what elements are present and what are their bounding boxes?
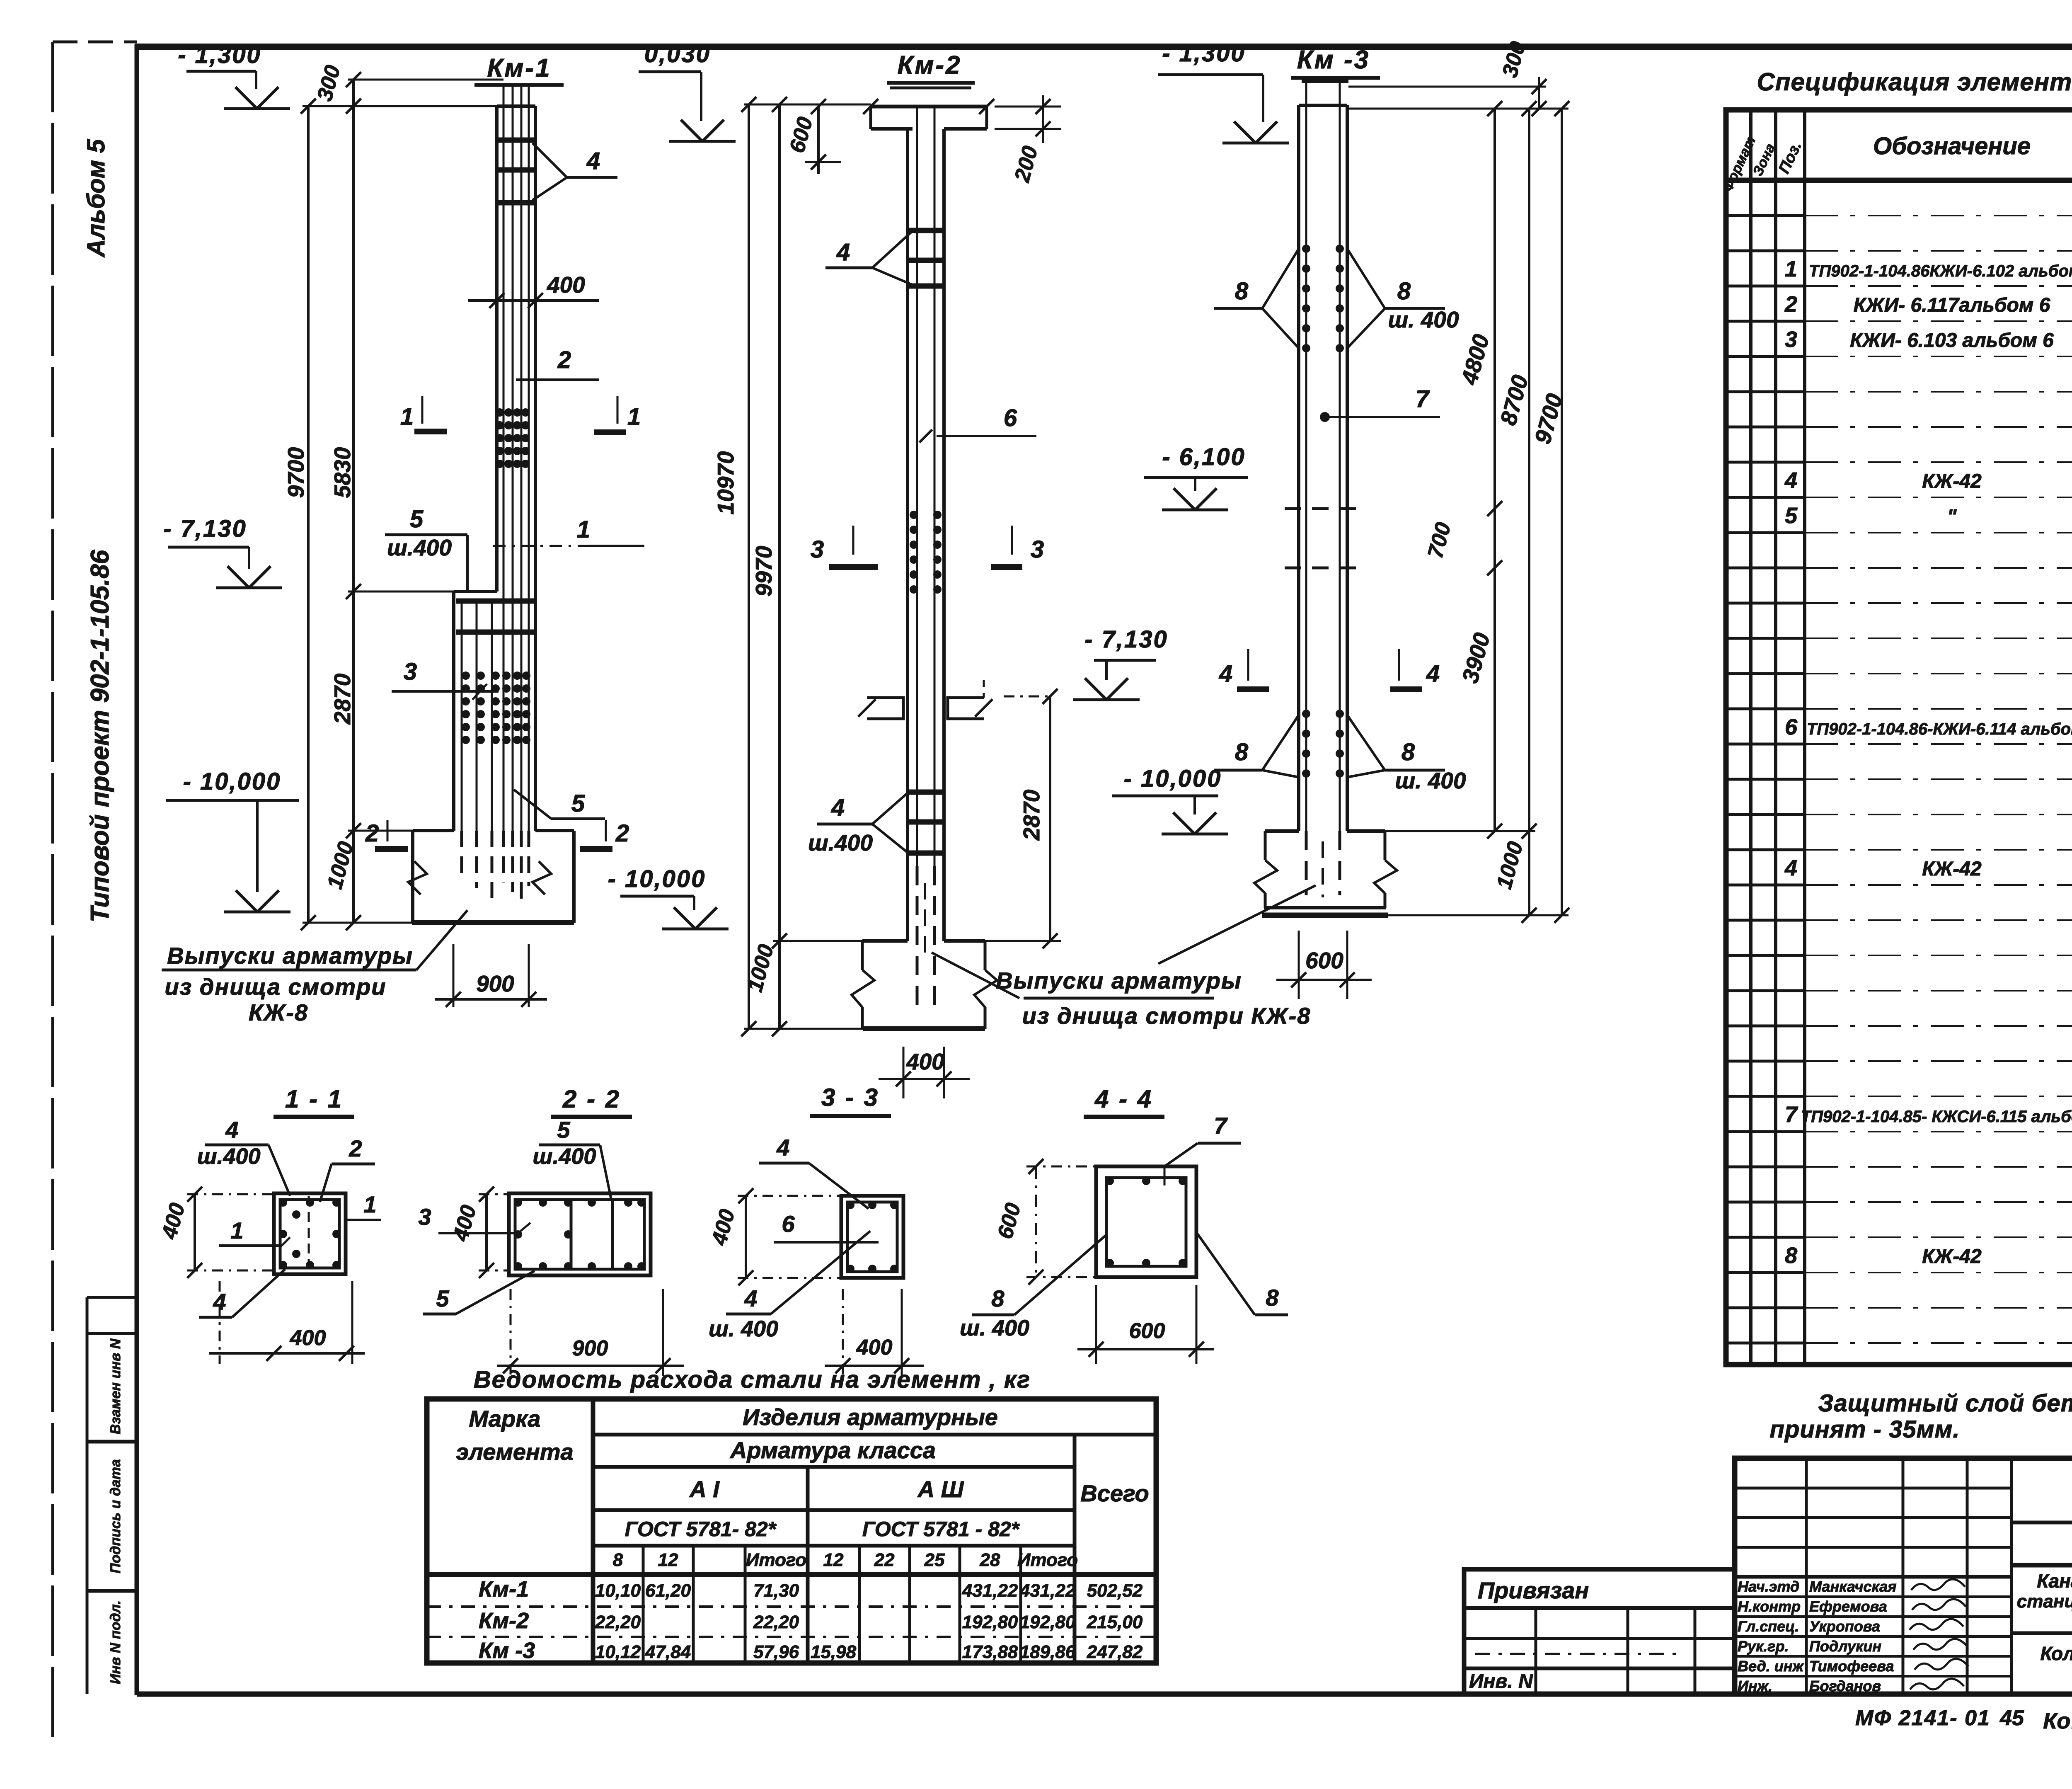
svg-text:2: 2 (1784, 292, 1797, 317)
svg-text:- 7,130: - 7,130 (1084, 626, 1168, 653)
beam stub left (Km-2) (858, 698, 903, 719)
foundation break marks Km-1 (408, 861, 551, 894)
svg-text:400: 400 (906, 1049, 944, 1074)
dimension 400 left (section 1-1) (157, 1187, 274, 1278)
svg-text:- 10,000: - 10,000 (183, 768, 281, 795)
column Km-3 shaft outline (1299, 105, 1347, 831)
leader 5 (Km-1 lower rebar) (514, 790, 605, 819)
svg-text:2: 2 (349, 1135, 362, 1161)
title block signature row Нач.этд (1738, 1578, 1965, 1595)
svg-text:2: 2 (615, 820, 629, 847)
svg-text:0,030: 0,030 (644, 41, 711, 68)
privyazan table grid (1464, 1608, 1735, 1694)
svg-text:КЖ-8: КЖ-8 (249, 999, 308, 1025)
svg-text:ТП902-1-104.86КЖИ-6.102 альбом: ТП902-1-104.86КЖИ-6.102 альбом 6 (1809, 262, 2072, 280)
leader 4 sh.400 (section 1-1) (197, 1117, 290, 1196)
svg-text:8: 8 (1235, 278, 1249, 305)
spec header Format (1720, 134, 1759, 194)
svg-text:431,22: 431,22 (962, 1581, 1018, 1601)
dimension 600 (Km-3 foundation) (1276, 931, 1372, 999)
svg-text:КЖ-42: КЖ-42 (1922, 470, 1982, 492)
svg-text:ш. 400: ш. 400 (1388, 307, 1459, 332)
svg-text:5: 5 (410, 506, 424, 533)
svg-text:ш.400: ш.400 (197, 1144, 260, 1169)
column Km-2 lower stirrups pos.4 (907, 792, 945, 853)
svg-text:8: 8 (1785, 1243, 1797, 1268)
dimension 400 (Km-1 shaft width) (468, 272, 599, 308)
svg-text:3: 3 (811, 536, 824, 563)
svg-text:1 - 1: 1 - 1 (285, 1085, 343, 1113)
svg-text:ГОСТ 5781- 82*: ГОСТ 5781- 82* (625, 1517, 777, 1541)
section 3-3 label (810, 1084, 891, 1116)
svg-text:Всего: Всего (1080, 1480, 1149, 1506)
svg-text:1: 1 (627, 403, 641, 430)
svg-text:ТП902-1-104.86-КЖИ-6.114 альбо: ТП902-1-104.86-КЖИ-6.114 альбом 6 (1807, 720, 2072, 738)
title block signature row Инж. (1738, 1677, 1964, 1694)
svg-text:Привязан: Привязан (1478, 1577, 1589, 1603)
level line 1 with leader (Km-1) (493, 516, 644, 546)
svg-text:12: 12 (823, 1550, 844, 1570)
leader 4 (Km-2 upper stirrups) (825, 232, 911, 284)
vedomost header GOST AIII (862, 1517, 1020, 1541)
section 4-4 outer square (1096, 1166, 1196, 1277)
svg-text:4 - 4: 4 - 4 (1094, 1085, 1153, 1113)
elevation mark -7.130 (left) (163, 515, 282, 588)
section mark 1-1 left (400, 396, 447, 431)
svg-text:22,20: 22,20 (595, 1612, 641, 1632)
column Km-1 longitudinal rebars (503, 87, 529, 831)
leader 3 (Km-1 base rebar) (392, 658, 499, 700)
column Km-2 shaft outline (908, 129, 944, 941)
vedomost header Vsego (1080, 1480, 1149, 1506)
level dash -6.100 on Km-3 (1285, 507, 1363, 510)
svg-text:3 - 3: 3 - 3 (821, 1084, 879, 1111)
leader 1 right (section 1-1) (346, 1191, 381, 1220)
dimension line 8700/1000 (Km-3) (1492, 101, 1537, 923)
dimension line 10970 (Km-2) (713, 97, 756, 1036)
svg-text:Спецификация элементов к мо: Спецификация элементов к монолитным коло… (1757, 68, 2072, 96)
svg-text:Копировал Иванова: Копировал Иванова (2043, 1709, 2072, 1733)
spec table row separators (1726, 216, 2072, 1343)
elevation mark -7.130 (Km-2/Km-3) (1073, 626, 1168, 700)
column Km-1 stirrup dots (widened base) (462, 671, 530, 744)
svg-text:10970: 10970 (713, 451, 738, 514)
spec header Zona (1750, 141, 1778, 178)
svg-text:КЖИ- 6.117альбом 6: КЖИ- 6.117альбом 6 (1854, 294, 2050, 316)
column Km-1 foundation (412, 831, 574, 923)
svg-text:4: 4 (586, 148, 600, 175)
svg-text:8: 8 (1266, 1285, 1279, 1311)
column Km-1 title (474, 54, 564, 85)
svg-text:173,88: 173,88 (962, 1642, 1018, 1662)
svg-text:Км-2: Км-2 (897, 51, 961, 80)
leader 1 inside (section 1-1) (219, 1217, 290, 1246)
caption vypuski armatury Km-1 (162, 910, 467, 1025)
svg-text:1: 1 (400, 403, 414, 430)
svg-text:2870: 2870 (1019, 789, 1044, 841)
svg-text:4: 4 (831, 794, 845, 821)
vedomost header AIII (917, 1476, 964, 1502)
dimension line 4800/700/3900 (Km-3) (1423, 101, 1502, 839)
foundation break marks Km-3 (1254, 860, 1397, 893)
leader 6 (Km-2 rebar) (920, 405, 1036, 442)
title block horizontal lines (right part) (2011, 1522, 2072, 1633)
leader 7 (Km-3 middle rebar) (1320, 385, 1440, 422)
level dash -7.130 on Km-3 (1285, 567, 1363, 570)
svg-text:Укропова: Укропова (1809, 1618, 1880, 1635)
svg-text:502,52: 502,52 (1087, 1581, 1143, 1601)
column Km-2 rebar outlets (dashed) (917, 866, 934, 1005)
svg-text:12: 12 (658, 1550, 678, 1570)
svg-text:Вед. инж: Вед. инж (1738, 1658, 1804, 1675)
leader 4 top (section 3-3) (759, 1134, 869, 1209)
svg-text:Альбом 5: Альбом 5 (82, 138, 110, 258)
svg-text:8: 8 (1235, 739, 1249, 766)
svg-text:Тимофеева: Тимофеева (1809, 1658, 1894, 1675)
svg-text:ш.400: ш.400 (808, 830, 873, 856)
svg-text:15,98: 15,98 (811, 1642, 857, 1662)
svg-text:6: 6 (782, 1211, 795, 1237)
leader 4 bottom (section 1-1) (199, 1269, 285, 1317)
extension lines Km-2 dims (744, 104, 871, 1029)
svg-text:25: 25 (924, 1550, 945, 1570)
leader 8 sh.400 right (Km-3 band1) (1347, 249, 1459, 348)
svg-text:Гл.спец.: Гл.спец. (1738, 1618, 1799, 1635)
svg-text:3: 3 (1031, 536, 1044, 563)
svg-text:192,80: 192,80 (1020, 1612, 1076, 1632)
title block frame (1735, 1458, 2072, 1694)
spec header Poz (1775, 139, 1805, 177)
svg-text:Инж.: Инж. (1738, 1677, 1772, 1694)
stamp label Inv N podl (108, 1600, 123, 1684)
svg-text:400: 400 (856, 1336, 893, 1360)
svg-text:ш.400: ш.400 (533, 1144, 596, 1169)
svg-text:КЖ-42: КЖ-42 (1922, 1246, 1982, 1268)
svg-text:1: 1 (230, 1217, 243, 1244)
svg-text:элемента: элемента (456, 1439, 573, 1465)
section 3-3 stirrup (846, 1201, 898, 1273)
column Km-1 shaft outline (497, 106, 535, 831)
dimension line 9700 (Km-1) (283, 99, 316, 930)
leader 4 sh.400 (Km-2 lower stirrups) (808, 794, 907, 856)
section mark 1-1 right (594, 396, 641, 432)
dimension 300 (Km-3 top) (1498, 39, 1547, 116)
svg-text:Км-1: Км-1 (479, 1577, 529, 1602)
svg-text:431,22: 431,22 (1019, 1581, 1076, 1601)
svg-text:Инв N подл.: Инв N подл. (108, 1600, 123, 1684)
svg-text:Выпуски арматуры: Выпуски арматуры (996, 967, 1242, 994)
svg-text:57,96: 57,96 (753, 1642, 799, 1662)
svg-text:6: 6 (1004, 405, 1017, 431)
section mark 3-3 left (811, 526, 878, 567)
leader 4 sh.400 bottom (section 3-3) (709, 1231, 870, 1341)
svg-text:4: 4 (776, 1134, 789, 1161)
column Km-3 title (1291, 46, 1380, 78)
leader 4 (upper stirrups Km-1) (533, 143, 617, 200)
svg-text:КЖ-42: КЖ-42 (1922, 858, 1982, 880)
dimension 600 bottom (section 4-4) (1077, 1285, 1214, 1364)
section mark 2-2 left (365, 820, 408, 849)
svg-text:4: 4 (1784, 856, 1797, 880)
dimension 900 bottom (section 2-2) (497, 1289, 684, 1376)
bottom caption 45 (1999, 1706, 2024, 1730)
column Km-3 longitudinal rebars (1306, 83, 1340, 831)
leader 2 (section 1-1) (320, 1135, 375, 1202)
column Km-3 foundation (1262, 831, 1388, 915)
elevation mark -10.000 (left) (166, 768, 299, 912)
svg-text:45: 45 (1999, 1706, 2024, 1730)
vedomost header AI (689, 1476, 720, 1502)
vedomost row Km-1 (479, 1577, 1143, 1602)
section 4-4 label (1084, 1085, 1164, 1117)
svg-text:из днища смотри КЖ-8: из днища смотри КЖ-8 (1022, 1003, 1311, 1029)
svg-text:8: 8 (613, 1550, 623, 1570)
vedomost header diameters (613, 1550, 1078, 1570)
column Km-2 upper stirrups pos.4 (907, 230, 945, 286)
spec row y=752: То же (1784, 292, 2072, 317)
svg-text:- 10,000: - 10,000 (1124, 765, 1222, 792)
column Km-3 top cap (1302, 78, 1348, 83)
svg-text:28: 28 (980, 1550, 1000, 1570)
section 4-4 stirrup (1106, 1177, 1187, 1267)
svg-text:Подпись и дата: Подпись и дата (108, 1459, 123, 1573)
title block signature row Гл.спец. (1738, 1618, 1963, 1635)
svg-text:Типовой проект 902-1-105.86: Типовой проект 902-1-105.86 (86, 550, 114, 922)
svg-text:215,00: 215,00 (1087, 1612, 1143, 1632)
leader 8 left (Km-3 band1) (1214, 249, 1299, 348)
svg-text:7: 7 (1785, 1102, 1798, 1127)
svg-text:1: 1 (363, 1191, 376, 1217)
dimension line 9700 (Km-3) (1530, 101, 1569, 923)
svg-text:5: 5 (436, 1285, 449, 1311)
svg-text:2: 2 (365, 820, 379, 847)
bottom caption Kopiroval Ivanova (2043, 1709, 2072, 1733)
vedomost table title (474, 1366, 1031, 1393)
svg-text:10,10: 10,10 (595, 1581, 641, 1601)
vedomost row Km-3 (479, 1638, 1143, 1663)
vedomost table frame (427, 1399, 1156, 1663)
sheet outer border (left, dashed) (53, 42, 137, 1739)
column Km-1 base stirrups pos.3 (456, 601, 535, 632)
svg-text:ГОСТ 5781 - 82*: ГОСТ 5781 - 82* (862, 1517, 1020, 1541)
svg-text:6: 6 (1785, 715, 1798, 739)
column Km-2 stirrup dots (910, 511, 942, 594)
svg-text:3: 3 (418, 1204, 431, 1230)
svg-text:Подлукин: Подлукин (1809, 1638, 1881, 1655)
svg-text:22,20: 22,20 (753, 1612, 799, 1632)
svg-text:192,80: 192,80 (962, 1612, 1018, 1632)
svg-text:900: 900 (572, 1336, 608, 1360)
spec table frame (1726, 110, 2072, 1365)
svg-text:Итого: Итого (746, 1550, 806, 1570)
column Km-1 upper stirrups pos.4 (496, 140, 536, 203)
column Km-3 stirrup dots band 1 (1302, 245, 1344, 352)
svg-text:Манкачская: Манкачская (1809, 1578, 1896, 1595)
svg-text:Нач.этд: Нач.этд (1738, 1578, 1799, 1595)
svg-text:3: 3 (1785, 327, 1797, 352)
svg-text:9970: 9970 (751, 545, 777, 596)
title block signature row Н.контр (1738, 1598, 1966, 1615)
column Km-2 foundation (862, 941, 985, 1029)
spec row y=837: " (1785, 327, 2072, 352)
column Km-2 longitudinal rebars (917, 107, 934, 866)
svg-text:5830: 5830 (329, 447, 355, 498)
vedomost header Armatura klassa (729, 1437, 936, 1463)
elevation mark -10.000 (left of Km-2) (608, 865, 729, 929)
leader 2 (rebar Km-1) (516, 347, 599, 380)
svg-text:": " (1947, 506, 1957, 528)
bottom caption MF2141-01 (1855, 1706, 1990, 1730)
svg-text:из днища смотри: из днища смотри (165, 974, 386, 1000)
spec row y=1262: ℓ = 880 (1785, 503, 2072, 528)
svg-text:принят - 35мм.: принят - 35мм. (1769, 1416, 1960, 1443)
svg-text:4: 4 (744, 1285, 757, 1311)
svg-text:ш. 400: ш. 400 (960, 1316, 1029, 1341)
section 3-3 outer square (841, 1196, 903, 1278)
dimension 200 (Km-2 flange thickness) (995, 95, 1061, 185)
spec table title (1757, 68, 2072, 96)
stamp label Vzamen inv N (108, 1338, 123, 1434)
svg-text:600: 600 (1129, 1319, 1165, 1343)
svg-text:А Ш: А Ш (917, 1476, 964, 1502)
elevation mark -6.100 (right of Km-2) (1144, 444, 1248, 510)
svg-text:КЖИ- 6.103 альбом 6: КЖИ- 6.103 альбом 6 (1850, 330, 2054, 351)
svg-text:Км-2: Км-2 (479, 1608, 529, 1633)
svg-text:8: 8 (991, 1285, 1005, 1311)
title block signature row Вед. инж (1738, 1658, 1968, 1675)
svg-text:9700: 9700 (283, 447, 309, 498)
column Km-1 rebar outlets (dashed) (462, 831, 529, 902)
svg-text:3: 3 (404, 658, 417, 685)
svg-text:МФ 2141- 01: МФ 2141- 01 (1855, 1706, 1990, 1730)
title block sheet name (2041, 1643, 2072, 1688)
dimension 600 (Km-2 flange) (785, 99, 871, 174)
leader 5 bottom (section 2-2) (423, 1271, 535, 1314)
leader 6 (section 3-3) (774, 1211, 879, 1242)
svg-text:1: 1 (577, 516, 590, 543)
svg-text:4: 4 (1784, 468, 1797, 493)
dimension 400 left (section 2-2) (448, 1187, 509, 1278)
svg-text:Рук.гр.: Рук.гр. (1738, 1638, 1789, 1655)
svg-text:4: 4 (225, 1117, 238, 1143)
beam stub right (Km-2) (948, 680, 992, 719)
dimension line 9970/1000 (Km-2) (743, 97, 787, 1036)
svg-text:247,82: 247,82 (1087, 1642, 1143, 1662)
column Km-2 title (887, 51, 975, 88)
leader 7 (section 4-4) (1164, 1113, 1241, 1185)
svg-text:ш.400: ш.400 (387, 535, 452, 560)
dimension 600 left (section 4-4) (993, 1159, 1096, 1285)
title block signature row Рук.гр. (1738, 1638, 1967, 1655)
section 1-1 outer square (274, 1193, 346, 1274)
column Km-3 rebar outlets (dashed) (1306, 831, 1340, 897)
spec row y=2707: Каркас плоский (1785, 1102, 2072, 1127)
section 2-2 label (551, 1085, 632, 1117)
svg-text:2870: 2870 (329, 673, 355, 725)
svg-text:4: 4 (1219, 660, 1232, 687)
section mark 4-4 left (Km-3) (1219, 649, 1269, 689)
spec header Oboznachenie (1873, 133, 2031, 160)
svg-text:22: 22 (874, 1550, 895, 1570)
svg-text:Марка: Марка (469, 1406, 541, 1432)
privyazan label (1478, 1577, 1589, 1603)
section 1-1 label (274, 1085, 354, 1117)
vedomost header GOST AI (625, 1517, 777, 1541)
svg-text:Богданов: Богданов (1809, 1677, 1881, 1694)
dimension 900 (Km-1 foundation) (435, 944, 547, 1007)
svg-text:4: 4 (1426, 660, 1440, 687)
extension lines Km-1 dims (303, 80, 503, 923)
svg-text:- 1,300: - 1,300 (178, 41, 261, 68)
leader 8 sh.400 bottom-left (section 4-4) (960, 1234, 1107, 1341)
svg-text:189,86: 189,86 (1020, 1642, 1076, 1662)
column Km-1 stirrup dots (shaft) (496, 408, 530, 468)
vedomost row Km-2 (479, 1608, 1143, 1633)
svg-text:- 7,130: - 7,130 (163, 515, 247, 542)
column Km-1 widened base outline (454, 591, 497, 831)
svg-text:5: 5 (1785, 503, 1798, 528)
leader 5 sh.400 (section 2-2) (533, 1117, 611, 1200)
section 2-2 stirrups (514, 1198, 646, 1270)
svg-text:400: 400 (547, 272, 585, 298)
svg-text:Инв. N: Инв. N (1469, 1670, 1533, 1692)
svg-text:7: 7 (1214, 1113, 1228, 1139)
svg-text:7: 7 (1416, 385, 1430, 412)
leader 8 left (Km-3 band2) (1214, 715, 1299, 777)
svg-text:4: 4 (836, 239, 850, 266)
svg-text:- 1,300: - 1,300 (1162, 40, 1246, 67)
svg-text:Н.контр: Н.контр (1738, 1598, 1801, 1615)
leader 5 sh.400 (Km-1 step stirrups) (385, 506, 467, 591)
svg-text:Обозначение: Обозначение (1873, 133, 2031, 160)
title block project name (2017, 1570, 2072, 1631)
svg-text:8: 8 (1397, 278, 1411, 305)
column Km-2 top flange (863, 99, 994, 129)
title block signature grid (1735, 1458, 2011, 1694)
svg-text:Итого: Итого (1017, 1550, 1078, 1570)
svg-text:Арматура класса: Арматура класса (729, 1437, 936, 1463)
svg-text:5: 5 (571, 790, 585, 817)
stamp label Podpis i data (108, 1459, 123, 1573)
svg-text:400: 400 (290, 1326, 326, 1350)
leader 8 bottom-right (section 4-4) (1198, 1234, 1288, 1315)
dimension line 300/5830/2870/1000 (Km-1) (312, 63, 361, 930)
svg-text:Выпуски арматуры: Выпуски арматуры (167, 943, 413, 969)
svg-text:Км-1: Км-1 (487, 54, 551, 82)
section mark 2-2 right (580, 820, 629, 849)
dimension 400 bottom (section 3-3) (825, 1289, 924, 1376)
svg-text:71,30: 71,30 (753, 1581, 799, 1601)
svg-text:Защитный слой бетона для р: Защитный слой бетона для рабочей арматур… (1818, 1390, 2072, 1417)
spec row y=1177: ℓ = 380 (1784, 468, 2072, 493)
elevation mark -1.300 (left of Km-3) (1158, 40, 1289, 143)
svg-text:47,84: 47,84 (645, 1642, 691, 1662)
section mark 3-3 right (991, 526, 1044, 567)
note zashchitny sloy line 1 (1818, 1390, 2072, 1417)
privyazan table frame (1464, 1569, 1735, 1694)
column Km-3 stirrup dots band 2 (1302, 710, 1344, 778)
elevation mark -1.300 (left) (178, 41, 290, 109)
dimension 400 bottom (section 1-1) (209, 1281, 365, 1364)
caption vypuski armatury Km-2/Km-3 (932, 885, 1316, 1029)
elevation mark -10.000 (left of Km-3) (1112, 765, 1228, 834)
svg-text:ш. 400: ш. 400 (1395, 768, 1466, 793)
svg-text:2: 2 (557, 347, 571, 373)
dimension 2870 (Km-2) (985, 689, 1061, 948)
vedomost table grid (427, 1399, 1156, 1663)
svg-text:Км -3: Км -3 (1297, 46, 1370, 74)
margin label Tipovoy proekt 902-1-105.86 (86, 550, 114, 922)
